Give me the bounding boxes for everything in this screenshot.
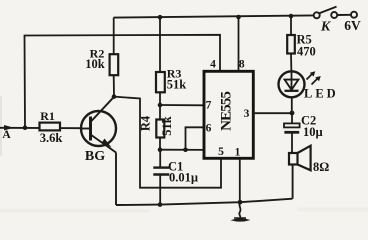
junction dot ground node — [238, 200, 243, 205]
svg-text:6: 6 — [206, 123, 212, 135]
wire bottom rail — [116, 199, 293, 205]
svg-text:LED: LED — [304, 87, 339, 101]
ground — [231, 202, 251, 222]
wire pin 3 to LED column — [253, 112, 292, 114]
junction dot pin6 branch — [183, 148, 188, 153]
op-amp U1 NE555 box — [204, 71, 253, 158]
junction dot R3 top rail — [158, 15, 163, 20]
svg-text:1: 1 — [235, 147, 241, 159]
svg-text:470: 470 — [297, 45, 316, 59]
resistor R1 — [40, 109, 63, 145]
svg-text:BG: BG — [85, 149, 105, 164]
svg-text:8: 8 — [239, 59, 245, 71]
resistor R4 — [139, 105, 175, 150]
junction dot pin 8 on rail — [236, 15, 241, 20]
svg-text:0.01µ: 0.01µ — [169, 171, 198, 185]
switch K — [314, 7, 357, 35]
svg-text:A: A — [2, 129, 11, 141]
svg-text:R1: R1 — [40, 109, 55, 123]
junction dot C1 on bottom rail — [158, 202, 163, 207]
LED — [279, 71, 339, 113]
node A arrowhead — [4, 125, 14, 130]
node A junction dot — [23, 125, 28, 130]
svg-text:8Ω: 8Ω — [313, 160, 329, 174]
resistor R5 — [287, 16, 316, 72]
capacitor C2 — [284, 113, 323, 153]
svg-text:3.6k: 3.6k — [40, 131, 63, 145]
junction dot R3-R4-pin7 node — [158, 103, 163, 108]
speaker 8 ohm — [289, 146, 329, 199]
svg-text:5: 5 — [218, 146, 224, 158]
svg-text:K: K — [320, 20, 332, 35]
resistor R3 — [156, 17, 186, 105]
wire collector node to pin 5 — [114, 97, 221, 188]
capacitor C1 — [153, 150, 198, 205]
junction dot pin3-LED-C2 — [290, 111, 295, 116]
svg-text:6V: 6V — [344, 18, 361, 33]
wire top supply rail — [114, 15, 314, 17]
wire pin 6 branch — [186, 127, 205, 150]
wire input A horizontal — [0, 127, 82, 129]
junction dot R4-C1-pin2 node — [158, 147, 163, 152]
svg-text:4: 4 — [210, 59, 216, 71]
svg-text:7: 7 — [206, 100, 212, 112]
wire reset rail from node A to pin 4 — [25, 35, 221, 128]
junction dot collector node — [112, 94, 117, 99]
junction dot R5 on rail — [289, 14, 294, 19]
svg-text:10µ: 10µ — [303, 125, 323, 139]
svg-text:51k: 51k — [160, 116, 174, 136]
transistor BG — [81, 97, 116, 164]
wire pin 2 from R4 node — [160, 149, 204, 151]
svg-text:51k: 51k — [167, 78, 187, 92]
wire pin 1 to ground — [239, 158, 241, 202]
wire pin 8 — [238, 17, 240, 71]
wire pin 7 — [160, 104, 204, 106]
svg-text:NE555: NE555 — [219, 92, 235, 131]
resistor R2 — [85, 18, 118, 97]
svg-text:3: 3 — [244, 108, 250, 120]
wire emitter to bottom rail — [115, 153, 117, 206]
svg-text:10k: 10k — [85, 57, 105, 71]
